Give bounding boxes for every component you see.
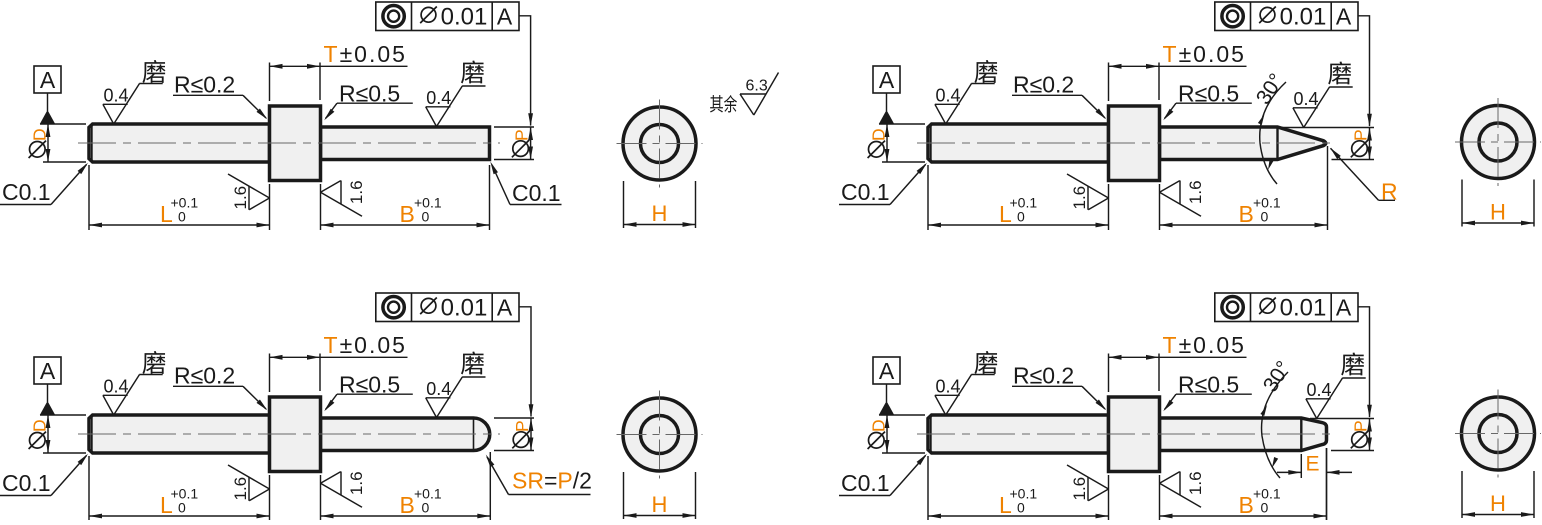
svg-text:R≤0.2: R≤0.2 <box>174 363 235 389</box>
svg-text:A: A <box>1336 3 1352 29</box>
chamfer label C0.1 left plain <box>0 163 88 205</box>
svg-text:H: H <box>1490 491 1506 516</box>
dimension L plain <box>89 165 270 230</box>
dimension D (left shaft diameter) cone <box>868 124 925 162</box>
svg-text:A: A <box>879 67 895 93</box>
surface mark 0.4 grind right shaft cone <box>1293 61 1353 127</box>
end view outer circle top-right <box>1462 106 1535 179</box>
leader from tolerance frame to ⌀P plain <box>519 16 533 126</box>
svg-text:1.6: 1.6 <box>1070 477 1089 501</box>
svg-text:T±0.05: T±0.05 <box>324 41 407 67</box>
svg-text:0.01: 0.01 <box>441 3 488 30</box>
svg-text:0.4: 0.4 <box>426 379 451 399</box>
svg-text:0.4: 0.4 <box>104 377 129 397</box>
svg-text:C0.1: C0.1 <box>512 180 561 206</box>
svg-text:C0.1: C0.1 <box>841 470 890 496</box>
dimension T (collar width) trunc <box>1109 332 1247 392</box>
svg-text:0: 0 <box>178 500 186 516</box>
svg-text:C0.1: C0.1 <box>2 179 51 205</box>
collar (center flange) trunc <box>1109 397 1160 472</box>
dimension P (right shaft diameter) plain <box>494 127 534 160</box>
dimension P (right shaft diameter) cone <box>1279 128 1374 160</box>
svg-text:A: A <box>497 294 513 320</box>
dimension H bottom-right <box>1462 471 1534 518</box>
dimension D (left shaft diameter) plain <box>29 124 86 162</box>
leader from tolerance frame to ⌀P cone <box>1358 16 1372 127</box>
dimension H top-right <box>1462 180 1534 227</box>
svg-text:R≤0.2: R≤0.2 <box>1013 72 1074 98</box>
datum symbol A trunc <box>873 357 900 415</box>
collar (center flange) plain <box>270 106 321 181</box>
right shaft body cone <box>1160 127 1326 160</box>
left shaft body round <box>89 415 270 453</box>
left shaft body trunc <box>928 415 1109 453</box>
svg-text:D: D <box>29 128 49 141</box>
svg-text:C0.1: C0.1 <box>2 470 51 496</box>
datum symbol A round <box>34 357 61 415</box>
chamfer label C0.1 left trunc <box>839 454 927 496</box>
svg-text:R≤0.5: R≤0.5 <box>1178 80 1239 106</box>
dimension L cone <box>928 165 1109 230</box>
svg-text:B: B <box>400 201 415 227</box>
end view outer circle bottom <box>623 398 696 471</box>
svg-text:T±0.05: T±0.05 <box>324 332 407 358</box>
svg-text:R≤0.5: R≤0.5 <box>339 80 400 106</box>
svg-text:1.6: 1.6 <box>1186 471 1205 495</box>
collar (center flange) cone <box>1109 106 1160 181</box>
angle 30° label and arc (truncated cone) <box>1259 357 1296 478</box>
end view crosshair centerlines top <box>617 100 703 188</box>
fillet label R≤0.2 round <box>173 363 267 411</box>
general surface roughness 其余 6.3 <box>710 73 779 116</box>
right shaft body round <box>321 418 490 451</box>
fillet label R≤0.5 plain <box>324 80 413 120</box>
fillet label R≤0.5 round <box>324 371 413 411</box>
chamfer label C0.1 left cone <box>839 163 927 205</box>
svg-text:B: B <box>1239 201 1254 227</box>
svg-text:1.6: 1.6 <box>231 477 250 501</box>
svg-text:H: H <box>652 201 668 226</box>
end view inner circle top <box>641 125 679 163</box>
svg-text:1.6: 1.6 <box>1186 180 1205 204</box>
svg-text:H: H <box>1490 200 1506 225</box>
svg-text:P: P <box>1350 129 1370 141</box>
svg-text:SR=P/2: SR=P/2 <box>512 468 592 494</box>
label SR=P/2 spherical end <box>486 455 592 495</box>
collar (center flange) round <box>270 397 321 472</box>
surface mark 0.4 grind right shaft plain <box>426 60 486 126</box>
svg-text:30°: 30° <box>1259 357 1296 396</box>
dimension P (right shaft diameter) trunc <box>1310 419 1374 451</box>
svg-text:0: 0 <box>1261 500 1269 516</box>
svg-text:A: A <box>497 3 513 29</box>
svg-text:P: P <box>512 420 532 432</box>
right shaft body plain <box>321 127 490 160</box>
end view outer circle bottom-right <box>1462 397 1535 470</box>
end view inner circle bottom-right <box>1479 415 1517 453</box>
svg-text:E: E <box>1306 453 1320 476</box>
svg-text:R≤0.5: R≤0.5 <box>339 371 400 397</box>
chamfer label C0.1 right plain <box>490 162 561 207</box>
fillet label R≤0.2 trunc <box>1012 363 1106 411</box>
dimension B round <box>321 452 491 521</box>
dimension B cone <box>1160 146 1328 230</box>
svg-text:6.3: 6.3 <box>746 78 768 95</box>
surface mark 1.6 right of collar plain <box>321 180 367 216</box>
concentricity tolerance frame ⌀0.01 A trunc <box>1215 293 1358 322</box>
svg-text:0: 0 <box>178 209 186 225</box>
svg-text:A: A <box>879 358 895 384</box>
svg-text:1.6: 1.6 <box>347 180 366 204</box>
surface mark 1.6 right of collar cone <box>1160 180 1206 216</box>
svg-text:30°: 30° <box>1252 70 1289 109</box>
svg-text:D: D <box>29 419 49 432</box>
svg-text:B: B <box>400 492 415 518</box>
right shaft body trunc <box>1160 418 1327 451</box>
svg-text:R≤0.2: R≤0.2 <box>1013 363 1074 389</box>
end view crosshair centerlines top-right <box>1455 98 1541 186</box>
end view outer circle top <box>623 107 696 180</box>
svg-text:A: A <box>40 67 56 93</box>
surface mark 0.4 grind left shaft cone <box>935 60 998 124</box>
svg-text:0: 0 <box>422 209 430 225</box>
surface mark 0.4 grind left shaft plain <box>103 60 166 124</box>
svg-text:A: A <box>1336 294 1352 320</box>
surface mark 1.6 right of collar round <box>321 471 367 507</box>
svg-text:D: D <box>868 128 888 141</box>
centerline (axis) cone quadrant <box>917 142 1337 144</box>
angle 30° label and arc (cone) <box>1252 70 1289 184</box>
end view inner circle top-right <box>1479 123 1517 161</box>
fillet label R≤0.5 cone <box>1163 80 1252 120</box>
surface mark 1.6 left of collar trunc <box>1067 465 1109 501</box>
label R at cone tip <box>1330 148 1397 205</box>
svg-text:0.4: 0.4 <box>104 86 129 106</box>
dimension P (right shaft diameter) round <box>494 418 534 451</box>
end view inner circle bottom <box>641 416 679 454</box>
svg-text:H: H <box>652 492 668 517</box>
end view crosshair centerlines bottom-right <box>1455 390 1541 478</box>
svg-text:0: 0 <box>1261 209 1269 225</box>
datum symbol A plain <box>34 66 61 124</box>
svg-text:R≤0.2: R≤0.2 <box>174 72 235 98</box>
svg-text:0.01: 0.01 <box>1280 294 1327 321</box>
left shaft body plain <box>89 124 270 162</box>
svg-text:1.6: 1.6 <box>231 186 250 210</box>
svg-text:R≤0.5: R≤0.5 <box>1178 371 1239 397</box>
fillet label R≤0.5 trunc <box>1163 371 1252 411</box>
svg-text:0.4: 0.4 <box>936 377 961 397</box>
concentricity tolerance frame ⌀0.01 A round <box>376 293 519 322</box>
svg-text:A: A <box>40 358 56 384</box>
concentricity tolerance frame ⌀0.01 A plain <box>376 2 519 31</box>
dimension T (collar width) round <box>270 332 408 392</box>
datum symbol A cone <box>873 66 900 124</box>
surface mark 0.4 grind right shaft round <box>426 352 486 418</box>
leader from tolerance frame to ⌀P round <box>519 307 533 417</box>
surface mark 0.4 grind right shaft trunc <box>1306 353 1366 419</box>
svg-text:1.6: 1.6 <box>1070 186 1089 210</box>
surface mark 0.4 grind left shaft trunc <box>935 351 998 415</box>
svg-text:0.4: 0.4 <box>1294 89 1319 109</box>
dimension L round <box>89 456 270 521</box>
dimension D (left shaft diameter) round <box>29 415 86 453</box>
surface mark 1.6 left of collar plain <box>228 174 270 210</box>
dimension B trunc <box>1160 448 1327 521</box>
svg-text:0: 0 <box>422 500 430 516</box>
centerline (axis) trunc quadrant <box>917 433 1337 435</box>
svg-text:0.01: 0.01 <box>1280 3 1327 30</box>
fillet label R≤0.2 plain <box>173 72 267 120</box>
dimension E (tip length) <box>1277 448 1352 521</box>
end view crosshair centerlines bottom <box>617 391 703 479</box>
surface mark 0.4 grind left shaft round <box>103 351 166 415</box>
svg-text:P: P <box>511 129 531 141</box>
centerline (axis) round quadrant <box>78 433 500 435</box>
svg-text:B: B <box>1239 492 1254 518</box>
dimension H bottom <box>624 472 696 519</box>
dimension B plain <box>321 165 490 230</box>
concentricity tolerance frame ⌀0.01 A cone <box>1215 2 1358 31</box>
svg-text:T±0.05: T±0.05 <box>1163 332 1246 358</box>
leader from tolerance frame to ⌀P trunc <box>1358 307 1372 418</box>
svg-text:T±0.05: T±0.05 <box>1163 41 1246 67</box>
svg-text:0.01: 0.01 <box>441 294 488 321</box>
centerline (axis) plain quadrant <box>78 142 500 144</box>
svg-text:0: 0 <box>1017 209 1025 225</box>
svg-text:0.4: 0.4 <box>936 86 961 106</box>
surface mark 1.6 left of collar cone <box>1067 174 1109 210</box>
svg-text:0: 0 <box>1017 500 1025 516</box>
svg-text:D: D <box>868 419 888 432</box>
svg-text:0.4: 0.4 <box>426 88 451 108</box>
svg-text:C0.1: C0.1 <box>841 179 890 205</box>
dimension T (collar width) plain <box>270 41 408 101</box>
svg-text:P: P <box>1350 420 1370 432</box>
surface mark 1.6 left of collar round <box>228 465 270 501</box>
dimension L trunc <box>928 456 1109 521</box>
dimension D (left shaft diameter) trunc <box>868 415 925 453</box>
fillet label R≤0.2 cone <box>1012 72 1106 120</box>
chamfer label C0.1 left round <box>0 454 88 496</box>
dimension H top <box>624 181 696 228</box>
surface mark 1.6 right of collar trunc <box>1160 471 1206 507</box>
left shaft body cone <box>928 124 1109 162</box>
svg-text:1.6: 1.6 <box>347 471 366 495</box>
svg-text:0.4: 0.4 <box>1307 380 1332 400</box>
dimension T (collar width) cone <box>1109 41 1247 101</box>
